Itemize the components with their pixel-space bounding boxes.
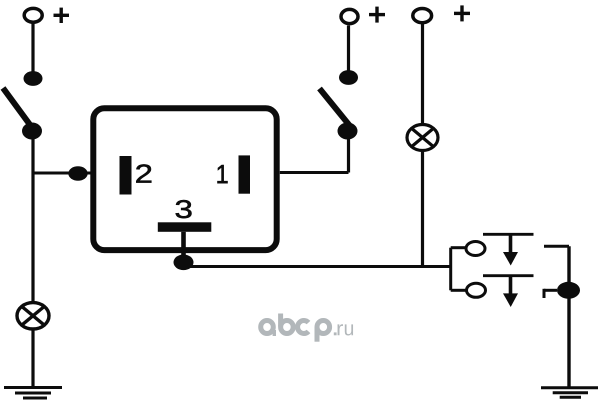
- switch S3 blade: [320, 89, 351, 127]
- watermark abcp.ru: [261, 314, 330, 342]
- terminal T2 (+ supply, top-middle): [341, 9, 358, 23]
- pin 3 stem: [181, 232, 186, 255]
- relay K1 body: [93, 108, 276, 250]
- terminal T3 (+ supply, top-right): [413, 9, 432, 23]
- pin 2 contact bar: [120, 156, 132, 195]
- plus label T1: [54, 8, 70, 23]
- wire branch to relay pin 2: [33, 172, 91, 175]
- node junction at pin 2: [68, 166, 87, 181]
- node S1 upper contact: [24, 71, 43, 86]
- wire S1 down to lamp L1: [31, 131, 34, 302]
- node S1 lower contact: [22, 123, 42, 140]
- wire L1 to ground: [31, 329, 34, 387]
- node pin 3: [174, 254, 194, 270]
- wire T3 to lamp L2: [421, 24, 424, 125]
- wire T1 to switch S1: [31, 24, 34, 73]
- node on ground rail: [557, 282, 580, 299]
- terminal T1 (+ supply, top-left): [24, 8, 42, 22]
- pin label 1: [218, 165, 228, 183]
- pin label 3: [176, 200, 192, 218]
- pin 3 contact bar: [158, 222, 212, 232]
- plus label T3: [454, 5, 470, 21]
- wire S3 down: [347, 131, 350, 173]
- S2 upper fixed bar: [483, 233, 534, 236]
- pin 1 contact bar: [239, 155, 251, 193]
- wire to relay pin 1: [280, 171, 349, 174]
- arrow upper: [503, 234, 518, 265]
- S2 second fixed contact: [544, 289, 557, 298]
- S2 movable contact upper: [466, 242, 485, 256]
- wire L2 down to pin-3 net: [421, 150, 424, 266]
- plus label T2: [369, 7, 385, 23]
- lamp L1: [17, 303, 49, 329]
- wire pin 3 to switch S2 lead: [184, 265, 451, 268]
- switch S2 bracket: [451, 248, 467, 291]
- node S3 upper contact: [339, 70, 358, 85]
- node S3 lower contact: [338, 123, 358, 140]
- ground G2: [541, 388, 598, 398]
- wire S2 fixed to ground rail: [544, 245, 569, 248]
- arrow lower: [503, 276, 518, 307]
- wire ground rail vertical: [567, 246, 570, 388]
- wire T2 to switch S3: [347, 26, 350, 73]
- S2 movable contact lower: [467, 283, 486, 297]
- pin label 2: [136, 164, 151, 182]
- S2 lower fixed bar: [483, 274, 534, 277]
- lamp L2: [407, 125, 438, 151]
- switch S1 blade: [3, 88, 32, 128]
- ground G1: [4, 388, 62, 399]
